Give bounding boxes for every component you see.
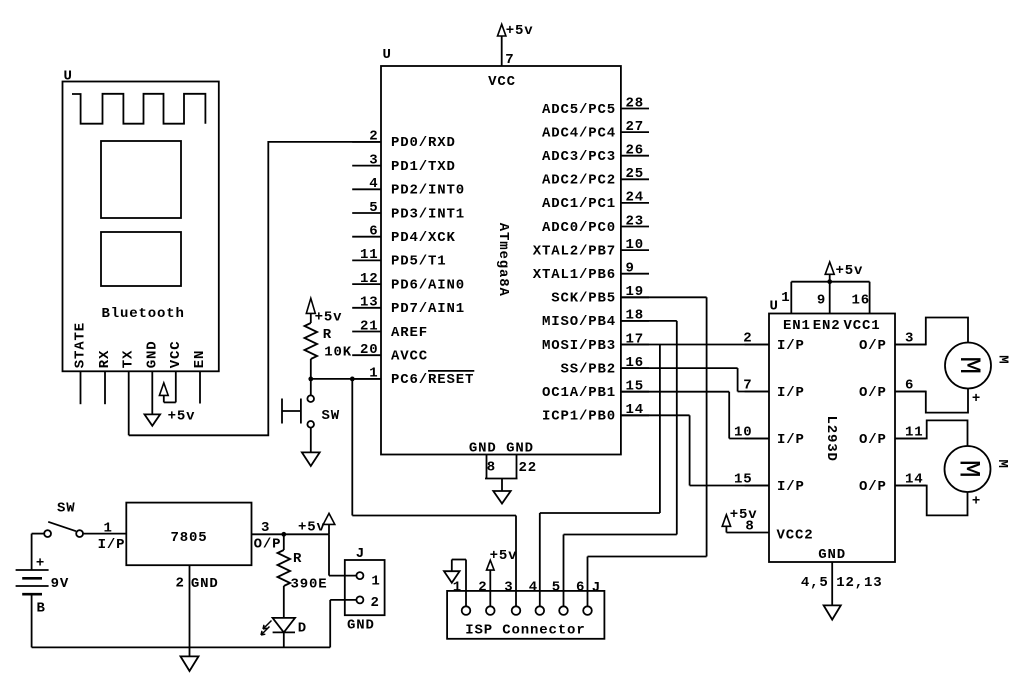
svg-text:O/P: O/P [859, 479, 887, 495]
svg-text:10K: 10K [324, 345, 352, 361]
svg-text:R: R [323, 327, 332, 343]
svg-text:9: 9 [626, 261, 635, 277]
svg-text:M: M [951, 460, 985, 478]
svg-text:1: 1 [104, 520, 113, 536]
svg-text:U: U [770, 299, 779, 315]
svg-text:M: M [995, 355, 1011, 364]
svg-text:9: 9 [817, 293, 826, 309]
svg-text:GND: GND [191, 576, 219, 592]
svg-text:SW: SW [322, 408, 341, 424]
svg-text:XTAL1/PB6: XTAL1/PB6 [533, 267, 616, 283]
svg-text:VCC1: VCC1 [844, 318, 881, 334]
svg-text:7: 7 [743, 378, 752, 394]
svg-text:L293D: L293D [823, 415, 839, 461]
svg-text:3: 3 [504, 579, 513, 595]
svg-text:XTAL2/PB7: XTAL2/PB7 [533, 243, 616, 259]
svg-text:U: U [64, 69, 73, 85]
svg-text:2: 2 [478, 579, 487, 595]
svg-text:I/P: I/P [98, 537, 126, 553]
svg-text:23: 23 [626, 213, 645, 229]
svg-text:+: + [972, 391, 981, 407]
svg-text:PD5/T1: PD5/T1 [391, 254, 447, 270]
svg-text:9V: 9V [51, 576, 70, 592]
svg-text:O/P: O/P [859, 432, 887, 448]
svg-text:D: D [298, 621, 307, 637]
svg-text:10: 10 [626, 237, 645, 253]
svg-text:VCC2: VCC2 [777, 528, 814, 544]
svg-text:ISP Connector: ISP Connector [465, 622, 585, 638]
svg-text:I/P: I/P [777, 338, 805, 354]
svg-text:M: M [994, 459, 1010, 468]
svg-text:13: 13 [360, 295, 379, 311]
svg-text:I/P: I/P [777, 385, 805, 401]
svg-text:1: 1 [371, 573, 380, 589]
svg-text:2: 2 [743, 331, 752, 347]
svg-text:VCC: VCC [488, 74, 516, 90]
svg-text:12,13: 12,13 [836, 575, 882, 591]
svg-text:390E: 390E [291, 577, 328, 593]
svg-text:PD7/AIN1: PD7/AIN1 [391, 301, 465, 317]
svg-text:4: 4 [369, 176, 378, 192]
svg-text:+5v: +5v [490, 548, 518, 564]
svg-text:2: 2 [176, 575, 185, 591]
svg-text:7805: 7805 [170, 530, 207, 546]
svg-text:B: B [37, 601, 46, 617]
svg-text:SS/PB2: SS/PB2 [560, 361, 616, 377]
svg-text:16: 16 [852, 293, 871, 309]
svg-text:+5v: +5v [298, 519, 326, 535]
svg-text:I/P: I/P [777, 432, 805, 448]
svg-text:20: 20 [360, 342, 379, 358]
svg-text:SCK/PB5: SCK/PB5 [551, 291, 616, 307]
svg-text:ADC5/PC5: ADC5/PC5 [542, 102, 616, 118]
svg-text:J: J [356, 546, 365, 562]
svg-text:15: 15 [734, 472, 753, 488]
svg-text:2: 2 [369, 129, 378, 145]
svg-text:AREF: AREF [391, 325, 428, 341]
svg-text:GND: GND [818, 547, 846, 563]
svg-text:5: 5 [369, 200, 378, 216]
svg-text:R: R [293, 551, 302, 567]
svg-text:+5v: +5v [836, 263, 864, 279]
svg-text:3: 3 [369, 152, 378, 168]
svg-text:O/P: O/P [254, 537, 282, 553]
svg-text:22: 22 [519, 460, 538, 476]
svg-text:ADC0/PC0: ADC0/PC0 [542, 220, 616, 236]
svg-text:PD4/XCK: PD4/XCK [391, 230, 456, 246]
svg-text:7: 7 [505, 52, 514, 68]
svg-text:+: + [36, 556, 45, 572]
svg-text:PD1/TXD: PD1/TXD [391, 159, 456, 175]
svg-text:GND: GND [506, 441, 534, 457]
svg-text:GND: GND [347, 618, 375, 634]
svg-text:6: 6 [369, 224, 378, 240]
svg-text:8: 8 [745, 518, 754, 534]
svg-text:+: + [972, 493, 981, 509]
svg-text:ICP1/PB0: ICP1/PB0 [542, 409, 616, 425]
svg-text:2: 2 [371, 595, 380, 611]
svg-text:O/P: O/P [859, 338, 887, 354]
svg-text:6: 6 [576, 579, 585, 595]
svg-text:11: 11 [360, 247, 379, 263]
svg-text:EN: EN [192, 350, 208, 369]
svg-text:1: 1 [781, 290, 790, 306]
svg-text:4: 4 [529, 579, 538, 595]
svg-text:MOSI/PB3: MOSI/PB3 [542, 338, 616, 354]
svg-text:4,5: 4,5 [801, 575, 829, 591]
svg-text:O/P: O/P [859, 385, 887, 401]
svg-text:1: 1 [453, 579, 462, 595]
svg-text:J: J [592, 580, 601, 596]
svg-text:M: M [951, 356, 985, 374]
svg-text:+5v: +5v [315, 309, 343, 325]
svg-text:ADC2/PC2: ADC2/PC2 [542, 173, 616, 189]
svg-text:ATmega8A: ATmega8A [495, 223, 511, 297]
svg-text:ADC4/PC4: ADC4/PC4 [542, 125, 616, 141]
svg-text:25: 25 [626, 166, 645, 182]
svg-text:GND: GND [144, 340, 160, 368]
svg-text:PC6/RESET: PC6/RESET [391, 372, 474, 388]
svg-text:VCC: VCC [168, 340, 184, 368]
svg-text:EN2: EN2 [813, 318, 841, 334]
svg-text:5: 5 [552, 579, 561, 595]
svg-text:ADC3/PC3: ADC3/PC3 [542, 149, 616, 165]
svg-text:I/P: I/P [777, 479, 805, 495]
svg-text:24: 24 [626, 190, 645, 206]
svg-text:ADC1/PC1: ADC1/PC1 [542, 196, 616, 212]
svg-text:SW: SW [57, 500, 76, 516]
svg-text:RX: RX [97, 350, 113, 369]
svg-text:PD2/INT0: PD2/INT0 [391, 183, 465, 199]
svg-text:+5v: +5v [168, 409, 196, 425]
svg-text:Bluetooth: Bluetooth [102, 306, 185, 322]
svg-text:26: 26 [626, 143, 645, 159]
svg-text:28: 28 [626, 95, 645, 111]
svg-text:PD0/RXD: PD0/RXD [391, 135, 456, 151]
svg-text:U: U [383, 47, 392, 63]
svg-text:8: 8 [487, 459, 496, 475]
svg-text:21: 21 [360, 318, 379, 334]
svg-text:TX: TX [121, 350, 137, 369]
svg-text:27: 27 [626, 119, 645, 135]
svg-text:+5v: +5v [506, 23, 534, 39]
svg-text:GND: GND [469, 441, 497, 457]
svg-text:OC1A/PB1: OC1A/PB1 [542, 385, 616, 401]
svg-text:EN1: EN1 [783, 318, 811, 334]
svg-text:STATE: STATE [73, 322, 89, 368]
svg-text:PD3/INT1: PD3/INT1 [391, 206, 465, 222]
svg-text:10: 10 [734, 425, 753, 441]
svg-text:12: 12 [360, 271, 379, 287]
svg-text:MISO/PB4: MISO/PB4 [542, 314, 616, 330]
svg-text:PD6/AIN0: PD6/AIN0 [391, 277, 465, 293]
svg-text:AVCC: AVCC [391, 349, 428, 365]
